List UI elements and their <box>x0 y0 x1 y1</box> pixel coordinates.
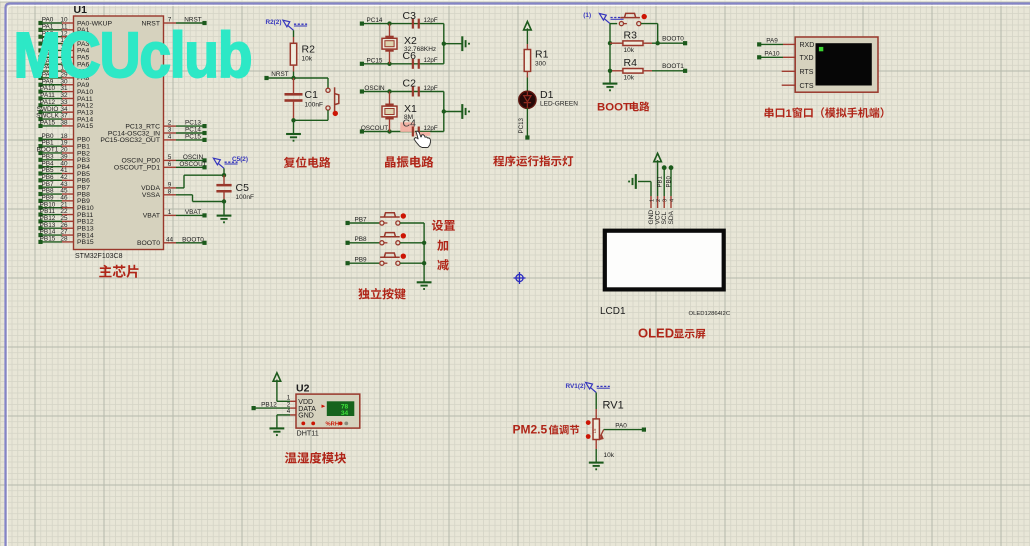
ground (rotated) right of crystal <box>461 104 463 119</box>
U1 right pin PC14-OSC32_IN (3) <box>164 132 177 134</box>
label plus (jia) <box>437 240 448 251</box>
wire VDDA to C5 top node <box>176 187 184 189</box>
wire OLED SCL pin <box>663 168 665 196</box>
junction rail PB9 <box>422 261 426 265</box>
svg-text:OLED12864I2C: OLED12864I2C <box>689 311 731 317</box>
resistor R1 300 <box>526 44 528 50</box>
svg-text:12pF: 12pF <box>424 85 438 92</box>
wire VDD <box>276 380 278 402</box>
wire net PA6 to U1 pin 16 <box>41 63 63 65</box>
svg-text:C3: C3 <box>403 10 417 22</box>
svg-text:PA0: PA0 <box>615 422 627 429</box>
power symbol for OLED VCC <box>654 153 662 161</box>
label reset circuit (fu wei dian lu) <box>284 157 331 168</box>
svg-text:10k: 10k <box>624 47 635 54</box>
wire net PB5 to U1 pin 41 <box>41 173 63 175</box>
BOOT push button <box>610 23 617 25</box>
junction crystal bottom <box>387 62 391 66</box>
wire probe to RV1 <box>595 393 597 410</box>
junction left rail R3 <box>608 41 612 45</box>
svg-text:RXD: RXD <box>800 42 815 49</box>
U1 right pin PC13_RTC (2) <box>164 125 177 127</box>
label temperature humidity module <box>285 452 346 464</box>
RV1 adjust dots <box>586 420 591 425</box>
wire net OSCOUT <box>362 131 444 133</box>
wire C1 to ground <box>293 120 295 133</box>
svg-text:PC15-OSC32_OUT: PC15-OSC32_OUT <box>100 137 160 144</box>
U1 right pin OSCIN_PD0 (5) <box>164 159 177 161</box>
svg-text:C6: C6 <box>403 50 417 62</box>
svg-text:OSCIN: OSCIN <box>364 85 385 92</box>
capacitor C1 100nF <box>293 78 295 94</box>
ground BOOT circuit <box>603 83 618 85</box>
svg-text:BOOT: BOOT <box>597 102 630 114</box>
wire net PA11 to U1 pin 32 <box>41 97 63 99</box>
RTS pin stub <box>782 70 796 72</box>
wire net PB8 to button <box>348 242 380 244</box>
svg-text:TXD: TXD <box>800 55 814 62</box>
svg-text:2: 2 <box>656 199 662 202</box>
svg-text:OSCOUT_PD1: OSCOUT_PD1 <box>114 165 160 172</box>
wire button left rail down <box>609 24 611 71</box>
wire right rail <box>443 92 445 132</box>
svg-text:10k: 10k <box>302 56 313 63</box>
U1 right pin VSSA (8) <box>164 194 177 196</box>
svg-text:1: 1 <box>786 108 792 120</box>
capacitor C2 12pF <box>412 87 414 97</box>
svg-text:BOOT0: BOOT0 <box>137 240 160 247</box>
wire net PB12 to U1 pin 25 <box>41 220 63 222</box>
wire net PB7 to U1 pin 43 <box>41 186 63 188</box>
label serial window (chuan kou 1 chuang kou) <box>765 108 785 118</box>
wire C5 to ground <box>223 202 225 215</box>
svg-text:100nF: 100nF <box>305 102 323 109</box>
svg-text:10k: 10k <box>624 74 635 81</box>
U1 right pin VDDA (9) <box>164 187 177 189</box>
wire OLED GND pin <box>638 181 651 183</box>
wire net PA0 to U1 pin 10 <box>41 22 63 24</box>
voltage probe C5(2) <box>213 158 220 165</box>
wire OLED VCC pin <box>657 160 659 196</box>
voltage probe (1) <box>599 14 606 21</box>
wire net PB13 to U1 pin 26 <box>41 227 63 229</box>
svg-text:R1: R1 <box>535 49 549 61</box>
wire OLED SDA pin <box>670 168 672 196</box>
svg-text:OLED: OLED <box>638 326 674 341</box>
svg-text:12pF: 12pF <box>424 125 438 132</box>
svg-text:44: 44 <box>166 236 174 243</box>
svg-text:1: 1 <box>649 199 655 202</box>
U1 right pin VBAT (1) <box>164 214 177 216</box>
wire net BOOT1 to U1 pin 20 <box>41 152 63 154</box>
potentiometer RV1 10k <box>595 409 597 419</box>
wire net SWCLK to U1 pin 37 <box>41 118 63 120</box>
resistor R4 10k <box>610 70 623 72</box>
svg-text:PC15: PC15 <box>185 134 201 141</box>
wire net PA9 to U1 pin 30 <box>41 84 63 86</box>
svg-text:8: 8 <box>168 188 172 195</box>
U1 right pin OSCOUT_PD1 (6) <box>164 166 177 168</box>
wire RV1 wiper to PA0 terminal <box>604 429 644 431</box>
wire power to R1 <box>526 28 528 44</box>
power symbol for DHT11 VDD <box>273 373 281 381</box>
wire left rail to ground <box>609 71 611 83</box>
wire net PB7 to button <box>348 222 380 224</box>
svg-text:38: 38 <box>60 120 68 127</box>
svg-text:C2: C2 <box>403 78 417 90</box>
wire net PB6 to U1 pin 42 <box>41 179 63 181</box>
junction left rail R4 <box>608 69 612 73</box>
svg-text:%RH: %RH <box>326 422 340 428</box>
wire button to C1 bottom <box>327 110 329 120</box>
wire net PB9 to U1 pin 46 <box>41 200 63 202</box>
wire R1 to D1 <box>526 78 528 92</box>
svg-text:10k: 10k <box>604 452 615 459</box>
svg-text:R2(2): R2(2) <box>266 19 282 26</box>
svg-text:VBAT: VBAT <box>185 209 201 216</box>
svg-text:C4: C4 <box>403 118 417 130</box>
wire net PA4 to U1 pin 14 <box>41 49 63 51</box>
terminal screen <box>816 43 872 85</box>
svg-text:300: 300 <box>535 61 546 68</box>
svg-text:12pF: 12pF <box>424 57 438 64</box>
node NRST net label <box>267 77 294 79</box>
svg-text:4: 4 <box>669 199 675 202</box>
svg-text:C5: C5 <box>236 182 250 194</box>
wire net PB12 to DATA <box>254 407 291 409</box>
junction right rail <box>442 42 446 46</box>
svg-text:100nF: 100nF <box>236 194 254 201</box>
svg-text:4: 4 <box>168 134 172 141</box>
junction right rail <box>442 109 446 113</box>
svg-text:D1: D1 <box>540 89 554 101</box>
svg-text:PC13: PC13 <box>518 117 525 133</box>
push button PB8 <box>384 242 387 244</box>
junction C5 bottom <box>222 199 226 203</box>
ground (rotated) for OLED GND <box>635 174 637 189</box>
capacitor C5 <box>223 175 225 185</box>
svg-text:4: 4 <box>287 408 291 415</box>
wire net PA10 to U1 pin 31 <box>41 91 63 93</box>
virtual terminal body <box>795 37 878 92</box>
CTS pin stub <box>782 84 796 86</box>
svg-text:MCUclub: MCUclub <box>14 19 252 91</box>
wire net PA1 to U1 pin 11 <box>41 29 63 31</box>
crystal X1 8M <box>389 92 391 105</box>
ground below C5 <box>217 215 232 217</box>
resistor R2 10k <box>293 37 295 43</box>
wire button right to BOOT0 rail <box>641 23 658 25</box>
wire net SWDIO to U1 pin 34 <box>41 111 63 113</box>
crystal X2 32.768KHz <box>389 24 391 37</box>
push button PB7 <box>384 222 387 224</box>
wire rail to ground <box>444 43 462 45</box>
wire GND <box>290 414 296 416</box>
svg-text:OSCOUT: OSCOUT <box>179 161 206 168</box>
terminal dot net PB1 (SCL) <box>662 165 667 170</box>
wire net PA12 to U1 pin 33 <box>41 104 63 106</box>
wire probe to C5 node <box>223 168 225 175</box>
ground DHT11 <box>270 427 285 429</box>
wire net PC14 <box>362 23 444 25</box>
wire net PA5 to U1 pin 15 <box>41 56 63 58</box>
wire R3 to BOOT0 terminal <box>652 42 685 44</box>
DHT11 display panel <box>327 401 355 416</box>
label set (she zhi) <box>432 220 455 231</box>
junction C1 bottom <box>291 118 295 122</box>
wire net PA8 to U1 pin 29 <box>41 77 63 79</box>
wire RV1 to ground <box>595 449 597 462</box>
svg-text:PB7: PB7 <box>354 216 367 223</box>
svg-text:15: 15 <box>592 428 597 433</box>
label crystal circuit (jing zhen dian lu) <box>385 156 433 168</box>
wire probe to R2 <box>293 30 295 37</box>
svg-text:PA10: PA10 <box>764 51 780 58</box>
wire rail to ground <box>444 111 462 113</box>
label program running indicator <box>493 155 573 166</box>
RV1 wiper arrow <box>600 430 604 437</box>
junction crystal top <box>387 89 391 93</box>
wire net PB4 to U1 pin 40 <box>41 166 63 168</box>
svg-text:LCD1: LCD1 <box>600 306 626 317</box>
svg-text:U1: U1 <box>74 4 88 16</box>
wire net PB0 to U1 pin 18 <box>41 138 63 140</box>
wire net PB10 to U1 pin 21 <box>41 207 63 209</box>
voltage probe RV1(2) <box>586 382 593 389</box>
wire net PB15 to U1 pin 28 <box>41 241 63 243</box>
svg-text:PA9: PA9 <box>766 38 778 45</box>
svg-text:PB9: PB9 <box>354 257 367 264</box>
svg-text:RTS: RTS <box>800 69 814 76</box>
svg-text:3: 3 <box>663 199 669 202</box>
sheet border <box>0 0 1030 2</box>
wire VSSA to C5 bottom node <box>176 194 193 196</box>
wire button PB8 to rail <box>400 242 424 244</box>
svg-text:LED-GREEN: LED-GREEN <box>540 101 578 108</box>
svg-text:RV1(2): RV1(2) <box>566 383 586 390</box>
LED D1 LED-GREEN <box>519 91 536 108</box>
capacitor C3 12pF <box>412 19 414 29</box>
svg-text:C5(2): C5(2) <box>232 156 248 163</box>
wire net PA15 to U1 pin 38 <box>41 125 63 127</box>
svg-text:6: 6 <box>168 161 172 168</box>
svg-text:PB12: PB12 <box>261 401 277 408</box>
wire net PA10 to TXD <box>759 56 783 58</box>
svg-text:STM32F103C8: STM32F103C8 <box>75 253 123 260</box>
mouse cursor hand <box>414 131 430 147</box>
MCUclub watermark <box>14 19 252 91</box>
svg-text:BOOT1: BOOT1 <box>662 63 684 70</box>
U1 right pin BOOT0 (44) <box>164 242 177 244</box>
terminal dot net PB0 (SDA) <box>669 165 674 170</box>
DHT11 adjust dots and %RH label <box>301 422 305 426</box>
U1 right pin NRST (7) <box>164 22 177 24</box>
resistor R3 10k <box>610 42 623 44</box>
svg-text:DHT11: DHT11 <box>297 428 319 437</box>
junction rail PB8 <box>422 241 426 245</box>
svg-text:RV1: RV1 <box>603 400 624 412</box>
svg-text:SDA: SDA <box>668 210 675 224</box>
sensor U2 DHT11 body <box>296 394 360 428</box>
svg-text:VSSA: VSSA <box>142 192 161 199</box>
svg-text:PA15: PA15 <box>40 120 56 127</box>
svg-text:PB0: PB0 <box>666 175 672 187</box>
svg-text:BOOT0: BOOT0 <box>662 36 684 43</box>
wire net OSCIN <box>362 91 444 93</box>
svg-text:PB15: PB15 <box>40 236 56 243</box>
terminal cursor block <box>819 47 823 51</box>
wire net PA3 to U1 pin 13 <box>41 43 63 45</box>
wire net PB8 to U1 pin 45 <box>41 193 63 195</box>
svg-text:1: 1 <box>168 209 172 216</box>
svg-text:PA15: PA15 <box>77 123 93 130</box>
wire D1 to PC13 terminal <box>526 108 528 138</box>
svg-text:VBAT: VBAT <box>143 213 160 220</box>
ground RV1 <box>589 462 604 464</box>
junction crystal top <box>387 21 391 25</box>
ground buttons <box>417 281 432 283</box>
IC U1 STM32F103C8 main chip body <box>74 16 164 250</box>
LCD1 OLED display body <box>603 229 726 292</box>
svg-text:BOOT0: BOOT0 <box>182 236 204 243</box>
svg-text:GND: GND <box>298 413 314 420</box>
origin crosshair marker <box>516 274 523 281</box>
ground (rotated) right of crystal <box>461 36 463 51</box>
wire net PB1 to U1 pin 19 <box>41 145 63 147</box>
svg-text:28: 28 <box>60 236 68 243</box>
wire R4 to BOOT1 terminal <box>652 70 685 72</box>
wire net PA7 to U1 pin 17 <box>41 70 63 72</box>
wire NRST node to reset button <box>294 77 329 79</box>
wire net PA9 to RXD <box>759 43 783 45</box>
wire right rail <box>443 24 445 64</box>
wire net PB9 to button <box>348 262 380 264</box>
wire net PB11 to U1 pin 22 <box>41 214 63 216</box>
svg-text:34: 34 <box>341 410 349 417</box>
svg-text:PM2.5: PM2.5 <box>513 423 548 437</box>
svg-text:U2: U2 <box>296 382 310 394</box>
wire R2 to NRST node <box>293 72 295 79</box>
svg-text:R4: R4 <box>624 57 638 69</box>
button rail wire <box>423 223 425 282</box>
wire net PB14 to U1 pin 27 <box>41 234 63 236</box>
svg-text:OSCOUT: OSCOUT <box>361 125 388 132</box>
svg-text:NRST: NRST <box>271 71 288 78</box>
U1 right pin PC15-OSC32_OUT (4) <box>164 139 177 141</box>
wire button PB9 to rail <box>400 262 424 264</box>
junction crystal bottom <box>387 129 391 133</box>
capacitor C4 12pF <box>400 122 415 132</box>
junction BOOT0 <box>656 41 660 45</box>
wire net PB3 to U1 pin 39 <box>41 159 63 161</box>
svg-text:PB8: PB8 <box>354 236 367 243</box>
label main chip (zhu xin pian) <box>99 265 138 278</box>
svg-text:R2: R2 <box>302 44 316 56</box>
svg-text:PC15: PC15 <box>367 57 383 64</box>
voltage probe R2(2) <box>283 20 290 27</box>
wire button PB7 to rail <box>400 222 424 224</box>
svg-text:C1: C1 <box>305 89 319 101</box>
svg-text:PB15: PB15 <box>77 239 94 246</box>
svg-text:CTS: CTS <box>800 83 814 90</box>
junction C5 top <box>222 173 226 177</box>
label independent buttons (du li an jian) <box>358 288 406 300</box>
label minus (jian) <box>437 259 448 270</box>
svg-text:12pF: 12pF <box>424 17 438 24</box>
reset push button <box>327 87 329 89</box>
push button PB9 <box>384 262 387 264</box>
wire net PC15 <box>362 63 444 65</box>
wire net PA2 to U1 pin 12 <box>41 36 63 38</box>
svg-text:R3: R3 <box>624 30 638 42</box>
svg-text:PC14: PC14 <box>367 17 383 24</box>
svg-text:PB1: PB1 <box>658 175 664 187</box>
svg-text:(1): (1) <box>583 12 591 19</box>
junction NRST <box>291 76 295 80</box>
power symbol above R1 <box>524 22 532 30</box>
ground reset circuit <box>286 133 301 135</box>
